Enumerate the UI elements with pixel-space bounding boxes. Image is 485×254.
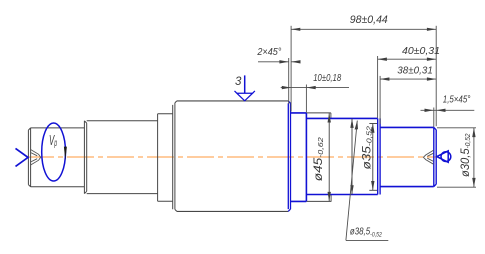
step face cyl1-cyl2 <box>84 121 86 194</box>
step face neck-d35 (blue) <box>305 113 307 201</box>
neck machined surface (blue) <box>291 113 306 201</box>
leader dia38,5 <box>346 121 388 241</box>
svg-text:10±0,18: 10±0,18 <box>313 72 341 84</box>
end section outline (blue) <box>380 127 434 186</box>
centerline axis <box>27 156 437 158</box>
allowance arrow <box>244 75 246 93</box>
dimension 98±0,44 <box>291 26 436 126</box>
cylinder 1 left face <box>28 128 30 187</box>
blank remainder lines (gray) <box>306 113 331 201</box>
svg-text:1,5×45°: 1,5×45° <box>443 95 471 106</box>
step face d35-end (blue double) <box>378 118 380 194</box>
dimension dia35 <box>351 119 353 195</box>
rotation arrowhead <box>64 147 67 161</box>
dimension 2x45 <box>258 58 301 104</box>
center hole left <box>31 150 41 165</box>
blank step verticals <box>330 113 332 201</box>
dimension dia45 <box>328 113 330 201</box>
right end face (blue) <box>434 127 437 186</box>
big cylinder machined right face (blue) <box>288 101 290 211</box>
rotating center symbol <box>437 151 451 162</box>
big cylinder outline <box>177 101 288 211</box>
big cylinder left face <box>173 101 177 211</box>
step face cyl2-collar <box>157 114 159 201</box>
dimension 10±0,18 <box>281 85 349 113</box>
svg-text:3: 3 <box>235 76 242 88</box>
allowance nabla symbol <box>235 91 255 101</box>
dimension 1,5x45 <box>421 108 475 128</box>
dimension mid (ticks) <box>369 124 377 191</box>
d35 section outline (blue) <box>306 118 377 194</box>
dimension dia30,5 <box>437 128 476 187</box>
svg-text:2×45°: 2×45° <box>256 47 281 58</box>
collar outline <box>158 114 173 201</box>
dimension 38±0,31 <box>380 76 436 124</box>
svg-text:38±0,31: 38±0,31 <box>397 64 433 76</box>
svg-text:98±0,44: 98±0,44 <box>350 14 388 26</box>
cylinder 1 outline <box>31 128 85 187</box>
svg-text:40±0,31: 40±0,31 <box>402 45 440 57</box>
dimension 40±0,31 <box>378 56 437 118</box>
cylinder 2 outline <box>87 121 158 194</box>
center hole right <box>423 150 433 164</box>
rotation ellipse <box>42 123 66 181</box>
chevron feed arrow <box>16 148 29 166</box>
